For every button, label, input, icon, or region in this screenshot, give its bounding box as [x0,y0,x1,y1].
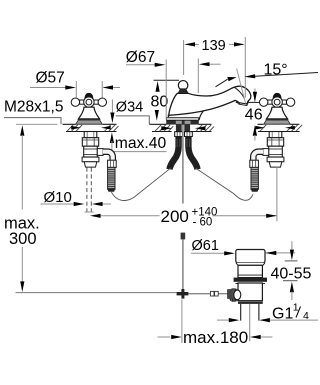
deck hole arrows at spout [161,126,172,130]
stud nut left [175,132,183,137]
drain flange [234,278,267,282]
extension line spout axis [183,40,185,75]
svg-text:Ø34: Ø34 [116,100,143,116]
rod coupling [210,291,214,296]
svg-text:Ø57: Ø57 [36,69,65,86]
reference line pipe end level [16,292,177,294]
drain bottom band [238,302,263,304]
right supply curve [196,168,253,200]
spout collar [178,89,188,94]
svg-text:139: 139 [202,38,226,54]
drain tailpipe [240,304,242,321]
dimension line 139 [186,43,199,45]
deck section hatching [67,125,302,131]
O67 left extension line over bell [165,60,167,120]
svg-text:300: 300 [9,230,37,248]
spout ball finial [178,81,188,91]
svg-text:- 60: - 60 [193,217,213,229]
deck top line [63,123,300,125]
svg-text:4: 4 [303,310,309,322]
svg-text:M28x1,5: M28x1,5 [4,98,63,115]
angle ray steep (aerator axis) [237,69,246,104]
deck reference line left (max.300 datum) [16,123,58,125]
stud hints in flange band [176,121,182,124]
svg-text:Ø67: Ø67 [126,49,155,66]
angle ray shallow [255,73,318,77]
cross fitting [181,289,184,299]
right supply centerline solid [276,167,278,221]
svg-text:Ø61: Ø61 [192,238,219,254]
svg-text:15°: 15° [264,62,288,79]
svg-text:200: 200 [161,207,189,226]
extension line spout outlet (through nose) [244,60,246,98]
spout inner nose line [234,87,245,99]
svg-text:G1: G1 [272,306,293,323]
leg texture lines [177,139,190,147]
svg-text:max.180: max.180 [183,328,248,347]
drain cup [236,250,265,263]
angle arc [216,79,228,87]
drain ball joint [234,290,241,300]
knurled adjuster knob [230,288,239,301]
mounting stud right [184,125,190,132]
svg-text:Ø10: Ø10 [44,189,72,206]
svg-text:max.40: max.40 [115,135,167,152]
horizontal rod [188,293,229,295]
pop-up rod upper [182,125,184,204]
mounting stud left [176,125,182,132]
drain neck [238,265,262,277]
spout body [168,86,250,117]
O61 right arrow [266,251,277,255]
pop-up rod lower [182,239,184,293]
spout leg left [170,136,179,169]
drain cup taper [236,263,265,266]
deck bottom line [66,131,300,133]
svg-text:40-55: 40-55 [271,265,312,282]
extension line spout outlet (upper part) [244,37,246,60]
spout escutcheon flange [167,117,199,120]
aerator rim [239,103,247,106]
spout leg right [188,136,197,169]
drain knurl knob [227,289,233,299]
drain body [238,283,262,301]
stud nut right [185,132,193,137]
left supply curve [111,168,171,201]
svg-text:46: 46 [245,106,263,123]
spout underside right edge [199,111,203,120]
rod clamp [181,233,186,240]
